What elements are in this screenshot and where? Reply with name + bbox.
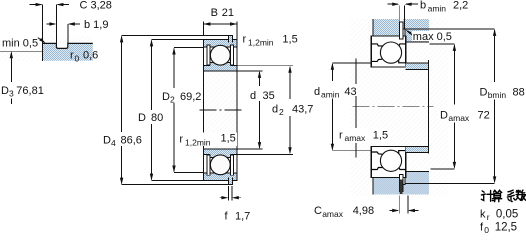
svg-text:1,7: 1,7 [235,210,250,222]
svg-text:1,2min: 1,2min [185,138,211,148]
算 [492,190,502,201]
dimension D2 69,2 [162,48,201,173]
svg-text:80: 80 [151,112,163,124]
svg-text:amax: amax [448,113,470,123]
svg-text:r: r [339,129,343,141]
svg-text:C: C [314,205,322,217]
centerline right view [353,106,434,108]
k_r 0,05 [480,208,518,222]
svg-text:min 0,5: min 0,5 [2,37,38,49]
f_0 12,5 [480,221,517,235]
svg-text:4: 4 [111,138,116,148]
svg-text:b: b [420,0,426,12]
leader min 0,5 (housing chamfer) [1,37,46,49]
D4 extension lines (snap ring OD) [122,35,229,184]
dimension C_amax 4,98 [314,196,419,219]
计 [481,190,494,201]
dimension D4 86,6 [103,35,142,184]
snap ring groove lines [229,40,233,42]
svg-text:2: 2 [279,107,284,117]
d2 extension lines [237,66,293,155]
dimension f 1,7 (snap ring width) [220,186,251,223]
shaft/housing hatch backdrop [350,19,449,196]
svg-text:43: 43 [344,86,356,98]
D_bmin extension lines [405,29,495,184]
svg-text:76,81: 76,81 [16,85,44,97]
shaft/bore hatch backdrop [203,39,237,180]
dimension b 1,9 [46,19,108,31]
svg-text:1,2min: 1,2min [248,38,274,48]
shaft shoulder upper (blue) [406,63,429,70]
svg-text:12,5: 12,5 [495,221,517,233]
groove + top edge outline [43,43,93,48]
housing section upper-left (blue) [373,19,400,36]
upper half section [203,35,237,71]
dimension b_amin 2,2 [387,0,468,29]
label r 1,2min 1,5 (bottom left) [178,133,237,148]
shield left upper [207,45,210,65]
svg-text:D: D [162,91,170,103]
svg-text:D: D [1,85,9,97]
svg-text:D: D [138,112,146,124]
svg-text:0,6: 0,6 [83,50,98,62]
dimension C 3,28 [30,0,112,12]
half geometry group (upper), mirrored below about y=106.7 [371,19,429,67]
ring side face line [42,43,44,60]
dimension d2 43,7 [272,66,313,155]
D extension lines [152,39,204,180]
ball upper (right view) [380,42,401,63]
svg-text:2: 2 [170,95,175,105]
dimension D_bmin 88 [480,29,525,184]
svg-text:d: d [314,86,320,98]
bearing side faces upper [203,39,237,71]
svg-text:r: r [243,34,247,46]
snap ring upper [399,22,403,39]
svg-text:3: 3 [9,89,14,99]
lower half section (mirror) [203,149,237,185]
svg-text:r: r [179,134,183,146]
svg-text:amin: amin [428,3,447,13]
svg-text:21: 21 [222,7,234,19]
svg-text:43,7: 43,7 [292,103,313,115]
svg-text:35: 35 [263,90,275,102]
shaft shoulder lower (blue) [406,146,429,152]
svg-text:r: r [487,212,490,222]
outer ring section block (blue) with snap ring groove [43,43,93,60]
svg-text:k: k [480,208,486,220]
D_amax extension lines [430,44,455,169]
D2 extension lines (shield recess dia) [174,48,203,173]
housing section upper-right with snap ring recess (blue) [403,19,429,42]
dimension D3 76,81 [1,51,44,104]
groove wall extension lines [43,5,68,44]
svg-text:1,5: 1,5 [221,133,236,145]
svg-text:amax: amax [345,133,367,143]
inner ring race profile upper [371,59,406,63]
svg-text:amax: amax [322,209,344,219]
snap ring tab upper [229,35,233,40]
svg-text:0,05: 0,05 [496,208,518,220]
svg-text:69,2: 69,2 [180,91,201,103]
shield right upper [230,45,233,65]
svg-text:86,6: 86,6 [121,134,142,146]
snap ring recess gap (white) [403,29,405,36]
数 [516,190,526,200]
inner ring upper (blue) [203,63,237,71]
d_amin extension lines [332,63,371,151]
svg-text:d: d [272,103,278,115]
svg-text:1,5: 1,5 [282,34,297,46]
dimension B 21 [203,7,237,39]
bearing outline upper (white) [371,36,406,67]
bore cylinder edges [203,71,237,149]
dimension D 80 [138,39,163,180]
计算系数 (calculation factors) as drawn glyphs [481,190,526,202]
centerline [200,109,242,111]
svg-text:72: 72 [478,109,490,121]
svg-text:bmin: bmin [488,90,507,100]
svg-text:88: 88 [513,86,525,98]
bore line upper [203,70,237,72]
系 [507,190,515,201]
svg-text:0: 0 [75,53,80,63]
svg-text:C 3,28: C 3,28 [80,0,112,12]
label r 1,2min 1,5 (top right) [243,34,298,48]
ball upper [210,45,230,65]
svg-text:amin: amin [321,90,340,100]
leader max 0,5 (snap ring gap) [405,30,452,44]
shaft break edge [355,58,357,157]
svg-text:0: 0 [484,225,489,235]
d extension lines (bore) [237,71,263,149]
label r_amax 1,5 [338,128,392,143]
housing hatch around groove detail [0,37,93,61]
svg-text:d: d [250,90,256,102]
svg-text:b 1,9: b 1,9 [84,19,108,31]
dimension d 35 [250,71,275,149]
svg-text:r: r [70,50,74,62]
svg-text:D: D [440,109,448,121]
D3 diameter line [0,50,43,52]
shaft shoulder face edge [428,60,430,154]
dimension d_amin 43 [314,63,357,151]
svg-text:4,98: 4,98 [353,205,374,217]
outer ring race profile upper [371,44,406,46]
dimension D_amax 72 [439,44,490,169]
snap ring lower emphasis (reads dark in target) [400,180,403,195]
outer ring upper (blue) [203,39,237,47]
svg-text:D: D [103,134,111,146]
svg-text:max 0,5: max 0,5 [413,31,452,43]
svg-text:B: B [211,7,218,19]
svg-text:D: D [480,86,488,98]
svg-text:1,5: 1,5 [373,129,388,141]
svg-text:2,2: 2,2 [453,0,468,12]
